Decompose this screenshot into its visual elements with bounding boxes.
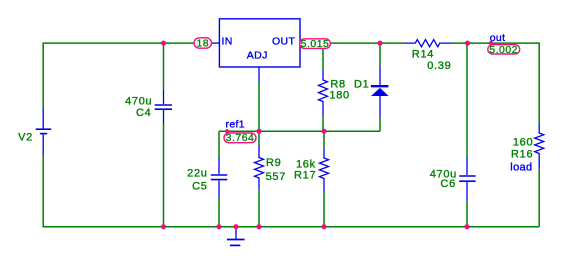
svg-text:160: 160: [513, 136, 533, 148]
svg-text:0.39: 0.39: [427, 60, 451, 72]
svg-text:C6: C6: [440, 178, 455, 190]
svg-text:3.764: 3.764: [226, 132, 255, 144]
svg-text:R16: R16: [511, 149, 533, 161]
svg-text:R9: R9: [266, 157, 281, 169]
svg-text:C5: C5: [192, 181, 207, 193]
svg-text:out: out: [490, 32, 506, 44]
svg-text:load: load: [510, 162, 532, 174]
svg-text:V2: V2: [18, 131, 33, 143]
svg-text:18: 18: [196, 37, 209, 49]
svg-text:557: 557: [266, 171, 286, 183]
svg-text:R8: R8: [330, 78, 345, 90]
svg-text:C4: C4: [136, 107, 151, 119]
svg-text:5.015: 5.015: [301, 38, 330, 50]
svg-text:5.002: 5.002: [489, 44, 518, 56]
svg-text:22u: 22u: [187, 167, 207, 179]
svg-text:180: 180: [329, 90, 349, 102]
svg-text:IN: IN: [222, 36, 233, 48]
svg-text:OUT: OUT: [272, 36, 295, 48]
svg-text:R14: R14: [412, 48, 434, 60]
svg-text:470u: 470u: [125, 95, 152, 107]
svg-text:ADJ: ADJ: [247, 49, 268, 61]
svg-text:R17: R17: [294, 169, 316, 181]
svg-text:D1: D1: [354, 79, 369, 91]
svg-text:ref1: ref1: [226, 119, 246, 131]
